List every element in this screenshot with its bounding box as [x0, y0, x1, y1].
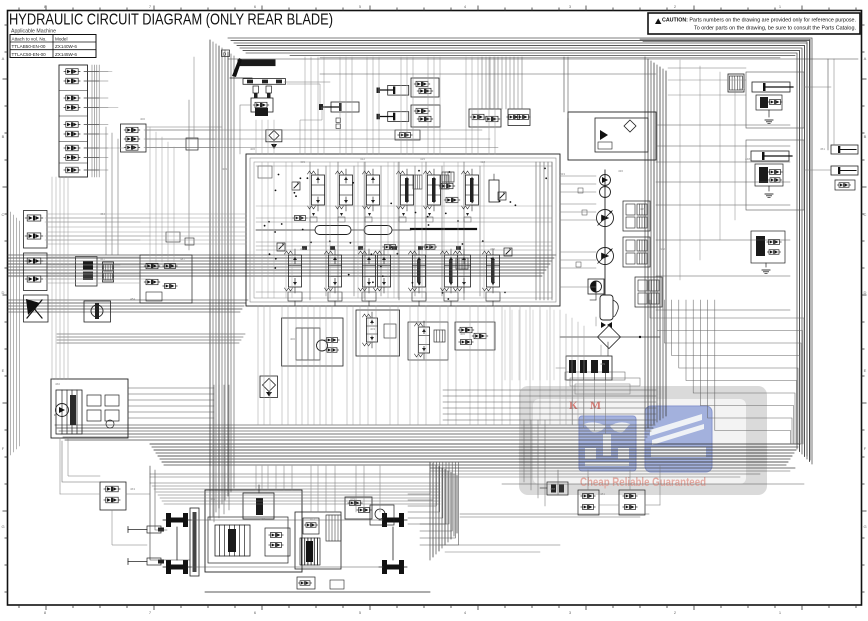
svg-text:469: 469	[260, 517, 265, 521]
svg-text:478: 478	[550, 487, 555, 491]
tiny stubs row	[310, 217, 317, 222]
caution box	[648, 13, 860, 34]
svg-text:415: 415	[420, 157, 425, 161]
sub box 2	[356, 310, 400, 356]
svg-text:442: 442	[660, 247, 665, 251]
valve box A	[469, 109, 501, 127]
upper spool row	[312, 175, 325, 205]
far right cylinders	[831, 145, 858, 154]
regulator stacks	[623, 201, 650, 231]
svg-text:484: 484	[130, 297, 135, 301]
gear pump	[588, 279, 604, 294]
svg-text:TTLAB50-EN-00: TTLAB50-EN-00	[12, 44, 46, 49]
svg-text:409: 409	[300, 160, 305, 164]
valve stack bottom	[215, 525, 250, 556]
pilot valve box 3	[24, 295, 49, 322]
cooler grid	[103, 262, 114, 282]
pilot manifold	[51, 379, 128, 438]
svg-text:D: D	[2, 290, 5, 295]
shuttle block	[76, 257, 98, 287]
svg-text:HYDRAULIC CIRCUIT DIAGRAM (ONL: HYDRAULIC CIRCUIT DIAGRAM (ONLY REAR BLA…	[9, 12, 333, 29]
machine table	[10, 35, 96, 58]
svg-text:P: P	[54, 413, 56, 417]
cylinder 3 + valve	[388, 112, 409, 122]
svg-text:G: G	[1, 524, 4, 529]
svg-text:466: 466	[210, 497, 215, 501]
pump small	[317, 340, 328, 351]
lower spool row	[289, 255, 302, 287]
bottom main box	[205, 490, 302, 572]
diamond box low	[260, 376, 278, 398]
dark patch upper-right spools	[405, 178, 409, 202]
plugs left	[147, 526, 161, 533]
svg-text:463: 463	[130, 487, 135, 491]
svg-text:TTLAC50-EN-00: TTLAC50-EN-00	[12, 52, 47, 57]
junction dots	[264, 168, 547, 300]
valve pair B	[619, 490, 645, 515]
svg-text:454: 454	[100, 212, 105, 216]
svg-text:B: B	[864, 134, 867, 139]
boom cylinder group 1	[728, 74, 744, 92]
svg-text:433: 433	[560, 172, 565, 176]
check valve block left	[59, 65, 88, 177]
boom cylinder group 2	[751, 151, 789, 161]
pedal stems	[253, 86, 259, 93]
galleries	[315, 226, 351, 235]
svg-text:400: 400	[290, 337, 295, 341]
main pump 2	[597, 248, 614, 265]
svg-text:Applicable Machine: Applicable Machine	[11, 29, 56, 35]
svg-text:E: E	[864, 368, 867, 373]
plug cluster 1	[547, 482, 568, 495]
svg-text:409: 409	[600, 362, 605, 366]
svg-text:Attach to vol. No.: Attach to vol. No.	[12, 37, 47, 42]
enclosure bundle top/right	[228, 38, 812, 464]
svg-text:418: 418	[480, 160, 485, 164]
bottom small marks	[297, 577, 315, 589]
svg-text:A: A	[864, 56, 867, 61]
svg-text:439: 439	[640, 207, 645, 211]
svg-text:412: 412	[360, 157, 365, 161]
pilot valve box 1	[24, 211, 48, 249]
svg-text:ZX145W-6: ZX145W-6	[55, 52, 77, 57]
solenoid valve cluster	[121, 124, 147, 152]
pedal bar	[243, 79, 286, 85]
svg-text:475: 475	[350, 497, 355, 501]
valve pair low	[100, 482, 126, 510]
main pump 1	[597, 210, 614, 227]
relief left	[292, 182, 300, 190]
bottom box 2	[295, 512, 341, 569]
pedal valve box	[251, 98, 273, 112]
svg-text:403: 403	[370, 327, 375, 331]
small pump lower left	[84, 301, 111, 322]
svg-text:ZX140W-6: ZX140W-6	[55, 44, 77, 49]
small box x168 y236	[166, 232, 180, 242]
svg-text:460: 460	[55, 382, 60, 386]
mid relief cluster	[408, 322, 448, 360]
svg-text:430: 430	[490, 247, 495, 251]
pedal lever	[238, 59, 276, 66]
svg-text:B: B	[2, 134, 5, 139]
main control valve outline	[246, 154, 560, 306]
svg-text:406: 406	[250, 147, 255, 151]
svg-text:406: 406	[460, 332, 465, 336]
thin element	[489, 180, 499, 202]
svg-text:Cheap Reliable Guaranteed: Cheap Reliable Guaranteed	[580, 477, 706, 489]
shockless valve	[266, 130, 282, 142]
cylinder 1	[331, 102, 359, 112]
svg-text:CAUTION: Parts numbers on the: CAUTION: Parts numbers on the drawing ar…	[662, 18, 856, 24]
right cylinder enclosures	[746, 72, 804, 128]
spool column wires	[309, 162, 311, 300]
svg-text:421: 421	[300, 247, 305, 251]
valve box B	[508, 109, 530, 126]
svg-text:472: 472	[310, 517, 315, 521]
cluster mid-left	[140, 255, 192, 303]
pilot valve box 2	[24, 253, 48, 291]
svg-text:400: 400	[140, 117, 145, 121]
extra inner details	[258, 166, 272, 178]
steering unit small	[370, 505, 394, 525]
box above	[243, 493, 274, 519]
svg-text:To order parts on the drawing,: To order parts on the drawing, be sure t…	[694, 26, 856, 32]
svg-text:E: E	[2, 368, 5, 373]
pump unit box	[568, 112, 656, 160]
svg-text:G: G	[863, 524, 866, 529]
pilot pumps	[600, 175, 611, 186]
svg-text:487: 487	[180, 257, 185, 261]
svg-text:403: 403	[222, 167, 227, 171]
bottom cluster right	[345, 497, 372, 519]
valve pair A	[578, 490, 599, 515]
axle group	[166, 513, 171, 527]
bottom cluster 2	[265, 528, 290, 556]
D port label	[222, 50, 230, 57]
svg-text:C: C	[864, 212, 867, 217]
svg-text:448: 448	[745, 157, 750, 161]
svg-text:D: D	[864, 290, 867, 295]
solenoid row	[566, 356, 612, 380]
cylinder 2 + valve	[388, 85, 409, 95]
svg-text:C: C	[2, 212, 5, 217]
svg-text:Model: Model	[55, 37, 68, 42]
svg-text:451: 451	[820, 147, 825, 151]
extra overlap cluster upper right	[441, 183, 453, 188]
svg-text:427: 427	[430, 247, 435, 251]
axle shaft	[190, 508, 199, 576]
svg-text:A: A	[2, 56, 5, 61]
watermark	[519, 386, 767, 495]
lower caps	[288, 292, 302, 301]
group 3	[751, 231, 785, 263]
svg-text:436: 436	[618, 169, 623, 173]
filter diamond	[598, 326, 621, 349]
svg-text:481: 481	[600, 492, 605, 496]
svg-text:445: 445	[740, 87, 745, 91]
svg-text:457: 457	[100, 257, 105, 261]
sub box 1	[282, 318, 344, 366]
motor body	[600, 295, 613, 320]
svg-text:424: 424	[360, 247, 365, 251]
